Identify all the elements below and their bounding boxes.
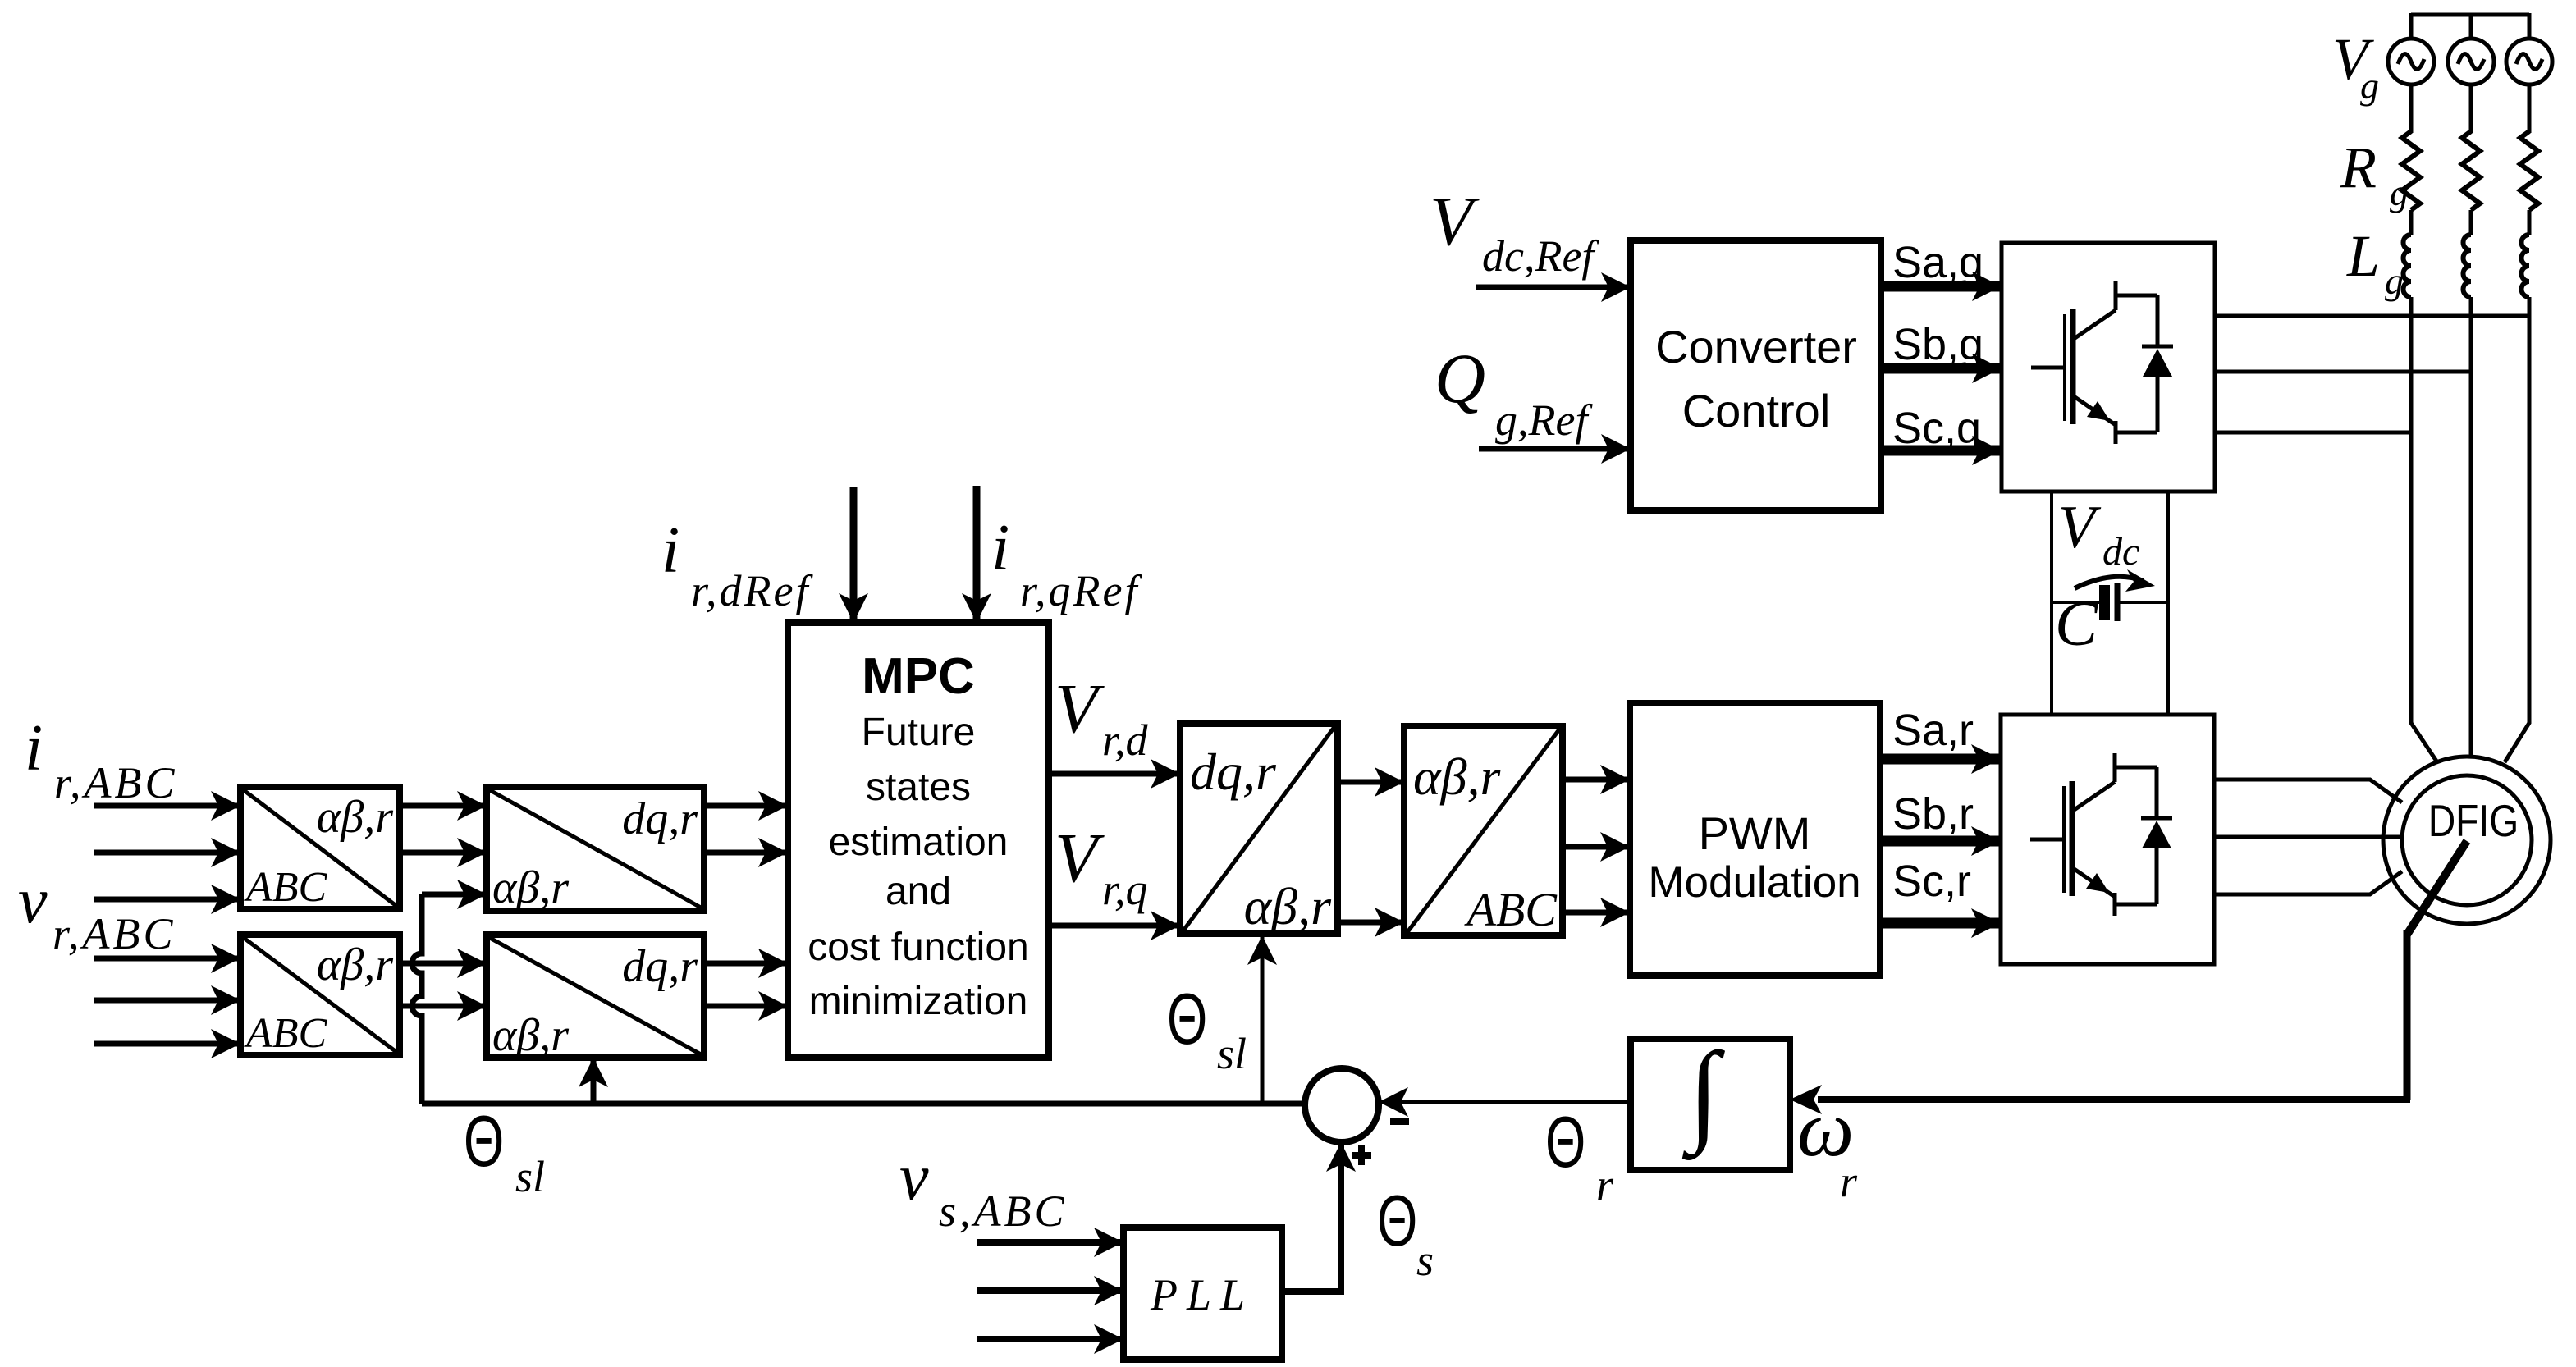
wire grid converter output a <box>2215 314 2529 318</box>
wire PLL input a <box>977 1239 1123 1246</box>
wire grid converter output b <box>2215 370 2471 374</box>
block MPC <box>788 623 1049 1058</box>
svg-text:L: L <box>2346 223 2380 289</box>
wire PLL output <box>1282 1167 1341 1292</box>
wire i r,qRef arrow <box>973 486 981 623</box>
svg-text:C: C <box>2055 587 2098 659</box>
wire Vdc,Ref arrow <box>1476 285 1631 290</box>
block ABC to ab,r transform lower <box>240 935 400 1055</box>
wire ab to PWM arrow a <box>1563 777 1630 783</box>
inductor Lg phase A <box>2404 235 2412 297</box>
DFIG inner circle <box>2402 775 2532 905</box>
IGBT grid-side <box>2031 281 2173 444</box>
svg-text:PWM: PWM <box>1699 807 1811 859</box>
wire box1 to box3 arrow 1 <box>400 803 487 809</box>
svg-text:Θ: Θ <box>1545 1103 1585 1183</box>
svg-text:r: r <box>1596 1160 1614 1209</box>
svg-text:MPC: MPC <box>862 648 975 705</box>
svg-text:Θ: Θ <box>1167 980 1207 1060</box>
svg-text:ABC: ABC <box>1463 883 1558 936</box>
wire dq to ab arrow 1 <box>1338 780 1404 785</box>
AC source Vg phase A <box>2388 39 2434 85</box>
wire phase B below source <box>2469 83 2473 133</box>
svg-text:and: and <box>885 870 951 913</box>
wire omega_r feedback vertical <box>2404 930 2411 1100</box>
capacitor C wire left <box>2052 601 2099 604</box>
AC source Vg phase B <box>2448 39 2494 85</box>
wire omega_r feedback horizontal <box>1818 1096 2410 1103</box>
svg-text:dc,Ref: dc,Ref <box>1482 231 1599 281</box>
svg-text:sl: sl <box>1217 1029 1247 1078</box>
wire PLL input b <box>977 1287 1123 1294</box>
wire box3 to MPC arrow 2 <box>704 850 788 856</box>
DFIG shaft <box>2407 841 2467 935</box>
arc arrow Vdc <box>2075 577 2144 588</box>
svg-text:V: V <box>1055 818 1105 897</box>
wire phase C drop <box>2528 13 2532 40</box>
wire phase C mid <box>2528 210 2532 235</box>
wire integrator to summer <box>1379 1100 1631 1104</box>
svg-text:DFIG: DFIG <box>2428 795 2519 846</box>
svg-text:Future: Future <box>862 711 976 754</box>
capacitor C wire right <box>2120 601 2168 604</box>
resistor Rg phase C <box>2520 131 2538 210</box>
wire input ir c <box>94 897 240 903</box>
wire dq to ab arrow 2 <box>1338 920 1404 926</box>
svg-text:r,ABC: r,ABC <box>54 758 178 807</box>
block ab,r to ABC transform <box>1404 726 1563 935</box>
AC source Vg phase C <box>2506 39 2552 85</box>
svg-text:αβ,r: αβ,r <box>1413 748 1501 806</box>
wire box2 to box4 arrow 1 <box>400 961 487 967</box>
inductor Lg phase C <box>2522 235 2530 297</box>
svg-text:dc: dc <box>2102 530 2139 574</box>
svg-text:r,ABC: r,ABC <box>53 909 176 958</box>
svg-text:r,q: r,q <box>1102 865 1148 914</box>
block dq,r to ab,r transform <box>1180 724 1338 934</box>
wire ab to PWM arrow c <box>1563 910 1630 916</box>
inductor Lg phase B <box>2464 235 2472 297</box>
wire theta_sl vertical with hops <box>412 894 422 1104</box>
wire theta_sl arrow into dq box <box>1261 935 1265 1104</box>
svg-text:PLL: PLL <box>1150 1270 1254 1319</box>
svg-text:s: s <box>1416 1236 1434 1285</box>
wire input ir b <box>94 850 240 856</box>
wire theta_s vertical arrow <box>1338 1142 1344 1292</box>
svg-text:Θ: Θ <box>464 1102 504 1182</box>
svg-text:∫: ∫ <box>1681 1029 1725 1160</box>
svg-text:Sb,g: Sb,g <box>1892 320 1983 369</box>
svg-text:dq,r: dq,r <box>622 941 698 992</box>
resistor Rg phase A <box>2402 131 2420 210</box>
block grid-side converter <box>2002 243 2215 491</box>
wire phase A below source <box>2409 83 2414 133</box>
IGBT rotor-side <box>2030 753 2172 916</box>
svg-text:g,Ref: g,Ref <box>1495 395 1593 445</box>
svg-text:Control: Control <box>1682 385 1831 437</box>
svg-text:g: g <box>2385 260 2404 302</box>
wire input vr a <box>94 956 240 962</box>
svg-text:s,ABC: s,ABC <box>939 1186 1068 1236</box>
svg-text:v: v <box>899 1141 929 1214</box>
resistor Rg phase B <box>2462 131 2480 210</box>
wire stator phase A vertical <box>2411 297 2437 762</box>
wire stator phase C vertical <box>2505 297 2529 762</box>
svg-text:αβ,r: αβ,r <box>1244 877 1332 935</box>
grid bus wire <box>2411 13 2529 17</box>
block integrator <box>1631 1039 1790 1170</box>
svg-text:states: states <box>866 766 971 809</box>
svg-text:αβ,r: αβ,r <box>492 1010 569 1061</box>
svg-text:V: V <box>2058 494 2102 561</box>
wire phase A mid <box>2409 210 2414 235</box>
wire box4 to MPC arrow 2 <box>704 1004 788 1009</box>
svg-text:ABC: ABC <box>244 864 328 911</box>
svg-text:Sa,r: Sa,r <box>1892 706 1974 755</box>
wire DC link right rail <box>2166 491 2170 715</box>
svg-text:dq,r: dq,r <box>622 793 698 844</box>
svg-text:αβ,r: αβ,r <box>317 940 393 990</box>
wire Qg,Ref arrow <box>1479 446 1631 452</box>
label plus <box>1352 1145 1371 1165</box>
wire ab to PWM arrow b <box>1563 844 1630 850</box>
svg-text:i: i <box>661 514 679 587</box>
svg-text:minimization: minimization <box>809 980 1028 1023</box>
svg-text:Modulation: Modulation <box>1648 858 1860 907</box>
wire phase B drop <box>2469 13 2473 40</box>
wire box2 to box4 arrow 2 <box>400 1004 487 1009</box>
block ab,r to dq,r transform lower <box>487 935 704 1058</box>
DFIG outer circle <box>2383 757 2551 924</box>
svg-text:cost function: cost function <box>808 926 1028 969</box>
wire theta_sl into box3 <box>422 892 487 898</box>
svg-text:estimation: estimation <box>829 821 1009 864</box>
wire Sb,r thick arrow <box>1880 836 2001 847</box>
wire rotor converter output c <box>2214 871 2402 894</box>
wire grid converter output c <box>2215 431 2411 435</box>
wire phase C below source <box>2528 83 2532 133</box>
wire Sc,r thick arrow <box>1880 918 2001 929</box>
svg-text:v: v <box>18 865 48 937</box>
wire stator phase B vertical <box>2469 297 2473 757</box>
svg-text:Q: Q <box>1434 339 1485 418</box>
wire input vr b <box>94 998 240 1004</box>
svg-text:Sb,r: Sb,r <box>1892 789 1974 839</box>
wire box4 to MPC arrow 1 <box>704 961 788 967</box>
svg-text:sl: sl <box>515 1152 545 1201</box>
wire theta_sl branch into box4 <box>591 1058 597 1104</box>
svg-text:Sc,r: Sc,r <box>1892 857 1971 906</box>
svg-text:ABC: ABC <box>244 1010 328 1057</box>
svg-text:i: i <box>25 712 43 784</box>
svg-text:r,qRef: r,qRef <box>1020 566 1142 615</box>
wire input ir a <box>94 803 240 809</box>
summing junction <box>1305 1068 1379 1142</box>
svg-text:dq,r: dq,r <box>1190 743 1277 801</box>
wire rotor converter output a <box>2214 780 2402 802</box>
wire PLL input c <box>977 1336 1123 1342</box>
wire phase B mid <box>2469 210 2473 235</box>
block PLL <box>1123 1228 1282 1360</box>
svg-text:g: g <box>2360 65 2379 107</box>
capacitor C plate left <box>2099 585 2110 620</box>
label minus <box>1390 1118 1409 1125</box>
svg-text:Θ: Θ <box>1377 1182 1417 1262</box>
svg-text:r,d: r,d <box>1102 716 1149 765</box>
svg-text:αβ,r: αβ,r <box>492 862 569 913</box>
svg-text:R: R <box>2340 135 2377 200</box>
block rotor-side converter <box>2001 715 2214 964</box>
wire V r,d arrow <box>1049 771 1180 777</box>
svg-text:Converter: Converter <box>1655 321 1857 373</box>
svg-text:r: r <box>1840 1157 1858 1206</box>
wire Sc,g thick arrow <box>1881 446 2002 456</box>
svg-text:V: V <box>1055 669 1105 748</box>
wire Sa,r thick arrow <box>1880 754 2001 765</box>
wire box1 to box3 arrow 2 <box>400 850 487 856</box>
wire input vr c <box>94 1041 240 1047</box>
svg-text:Sa,g: Sa,g <box>1892 238 1983 287</box>
wire phase A drop <box>2409 13 2414 40</box>
wire V r,q arrow <box>1049 923 1180 929</box>
wire Sa,g thick arrow <box>1881 281 2002 292</box>
svg-text:i: i <box>991 512 1009 584</box>
wire i r,dRef arrow <box>850 487 858 623</box>
block Converter Control <box>1631 240 1881 510</box>
wire DC link left rail <box>2050 491 2053 715</box>
wire theta_sl feedback horizontal <box>422 1101 1305 1107</box>
wire rotor converter output b <box>2214 835 2404 839</box>
wire Sb,g thick arrow <box>1881 363 2002 374</box>
svg-text:g: g <box>2390 171 2409 213</box>
block ABC to ab,r transform upper <box>240 787 400 909</box>
block PWM Modulation <box>1630 703 1880 976</box>
block ab,r to dq,r transform upper <box>487 787 704 911</box>
svg-text:V: V <box>1430 181 1480 260</box>
capacitor C plate right <box>2115 583 2121 621</box>
wire box3 to MPC arrow 1 <box>704 803 788 809</box>
svg-text:r,dRef: r,dRef <box>691 566 813 615</box>
svg-text:αβ,r: αβ,r <box>317 792 393 843</box>
